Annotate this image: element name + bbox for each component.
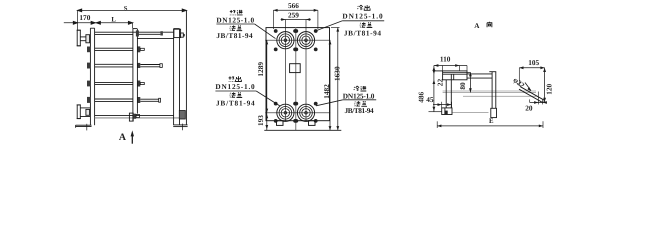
dimension 110 — [434, 66, 467, 71]
svg-text:DN125-1.0: DN125-1.0 — [343, 91, 375, 100]
dimension 45 — [433, 102, 452, 108]
phi22 leader — [525, 83, 531, 91]
label cold-in (bottom right) — [316, 86, 376, 115]
label cold-out (top right) — [316, 5, 385, 37]
svg-text:DN125-1.0: DN125-1.0 — [342, 11, 383, 20]
dimension 20 — [530, 92, 547, 105]
inclined support leg — [519, 87, 544, 103]
port vertical centerline left — [284, 20, 286, 122]
dimension 193 (left bottom, rotated) — [266, 113, 268, 131]
dimension S — [78, 9, 187, 30]
bottom guide bar — [95, 116, 180, 118]
svg-text:20: 20 — [525, 103, 533, 112]
svg-text:45: 45 — [426, 95, 434, 104]
svg-text:110: 110 — [440, 55, 451, 64]
port bottom-right (cold in) — [297, 104, 314, 121]
dimension 486 line (with 22 arrows) — [433, 66, 435, 112]
svg-text:105: 105 — [528, 58, 539, 67]
movable pressure plate — [133, 28, 139, 121]
fixed frame plate — [90, 28, 94, 125]
port top-right (cold out) — [297, 32, 314, 49]
dimension 120 — [540, 68, 546, 102]
frame plate outline — [266, 28, 330, 121]
block support webs — [446, 80, 451, 108]
carrying bar (top) — [95, 31, 174, 38]
svg-text:120: 120 — [544, 84, 553, 95]
dimension 1630 (right, rotated) — [331, 27, 340, 130]
dimension 105 — [519, 68, 544, 86]
port horizontal centerline bottom — [265, 112, 330, 114]
view direction arrow — [131, 130, 134, 143]
svg-text:JB/T81-94: JB/T81-94 — [216, 98, 255, 107]
left foot — [277, 121, 284, 126]
dimension E — [437, 121, 543, 128]
svg-text:486: 486 — [417, 92, 426, 103]
dimension 259 — [281, 19, 311, 21]
svg-text:80: 80 — [458, 82, 467, 90]
svg-text:φ22: φ22 — [512, 75, 527, 90]
bottom-left nozzle flange — [77, 105, 91, 119]
port horizontal centerline top — [265, 39, 330, 41]
dimension 170 — [64, 21, 96, 24]
dimension 1482 (right, rotated) — [329, 40, 331, 130]
column guide-bar block — [179, 111, 185, 120]
right view arrowheads — [434, 64, 438, 67]
dimension 566 — [273, 10, 318, 29]
svg-text:259: 259 — [288, 10, 299, 19]
column foot pad — [491, 108, 497, 117]
upper bar to column — [467, 74, 492, 78]
tie rod row 3 — [87, 63, 162, 69]
svg-text:S: S — [124, 6, 128, 13]
column base plate — [173, 124, 187, 131]
bolt holes around ports — [274, 29, 318, 123]
nameplate — [290, 64, 301, 73]
top-left nozzle flange — [77, 30, 91, 46]
svg-text:566: 566 — [288, 1, 299, 10]
svg-text:22: 22 — [436, 79, 445, 87]
svg-text:JB/T81-94: JB/T81-94 — [216, 31, 253, 40]
clamp plate block (top view) — [434, 71, 471, 80]
svg-text:DN125-1.0: DN125-1.0 — [215, 82, 255, 91]
svg-text:JB/T81-94: JB/T81-94 — [344, 28, 381, 37]
svg-text:193: 193 — [256, 115, 265, 126]
fixed plate foot — [76, 124, 92, 131]
ground line — [264, 129, 341, 131]
right foot — [309, 121, 316, 126]
svg-text:1289: 1289 — [256, 62, 265, 77]
tie rod row 4 — [87, 81, 144, 87]
tie rod row 5 — [87, 97, 161, 103]
svg-text:1482: 1482 — [322, 84, 331, 99]
svg-text:L: L — [111, 16, 116, 23]
label hot-in (top left) — [216, 10, 275, 40]
dimension L — [96, 21, 133, 28]
movable plate foot on guide bar — [129, 113, 139, 121]
svg-text:A: A — [474, 22, 480, 30]
port vertical centerline right — [305, 20, 307, 122]
port bottom-left (hot out) — [277, 104, 294, 121]
label hot-out (bottom left) — [215, 76, 280, 107]
svg-text:170: 170 — [79, 13, 90, 22]
foot of clamp plate — [429, 108, 453, 115]
svg-text:DN125-1.0: DN125-1.0 — [216, 15, 254, 24]
plate vertical centerline — [295, 28, 297, 131]
svg-text:1630: 1630 — [333, 66, 342, 81]
svg-text:E: E — [489, 118, 494, 125]
svg-text:JB/T81-94: JB/T81-94 — [345, 106, 375, 115]
rear support column — [174, 10, 187, 125]
dimension 1289 (left, rotated) — [266, 40, 268, 113]
tie rod row 2 — [87, 46, 144, 52]
rear column T-section — [489, 72, 496, 109]
column top block with bolt — [174, 29, 185, 37]
lower bar (light) — [443, 91, 537, 113]
port top-left (hot in) — [277, 32, 294, 49]
svg-text:A: A — [119, 132, 126, 143]
